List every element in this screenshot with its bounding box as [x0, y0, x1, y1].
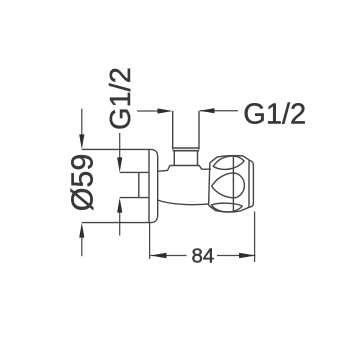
svg-text:84: 84 [192, 245, 215, 268]
svg-text:G1/2: G1/2 [105, 67, 137, 130]
svg-text:Ø59: Ø59 [66, 154, 100, 212]
svg-text:G1/2: G1/2 [243, 98, 306, 130]
